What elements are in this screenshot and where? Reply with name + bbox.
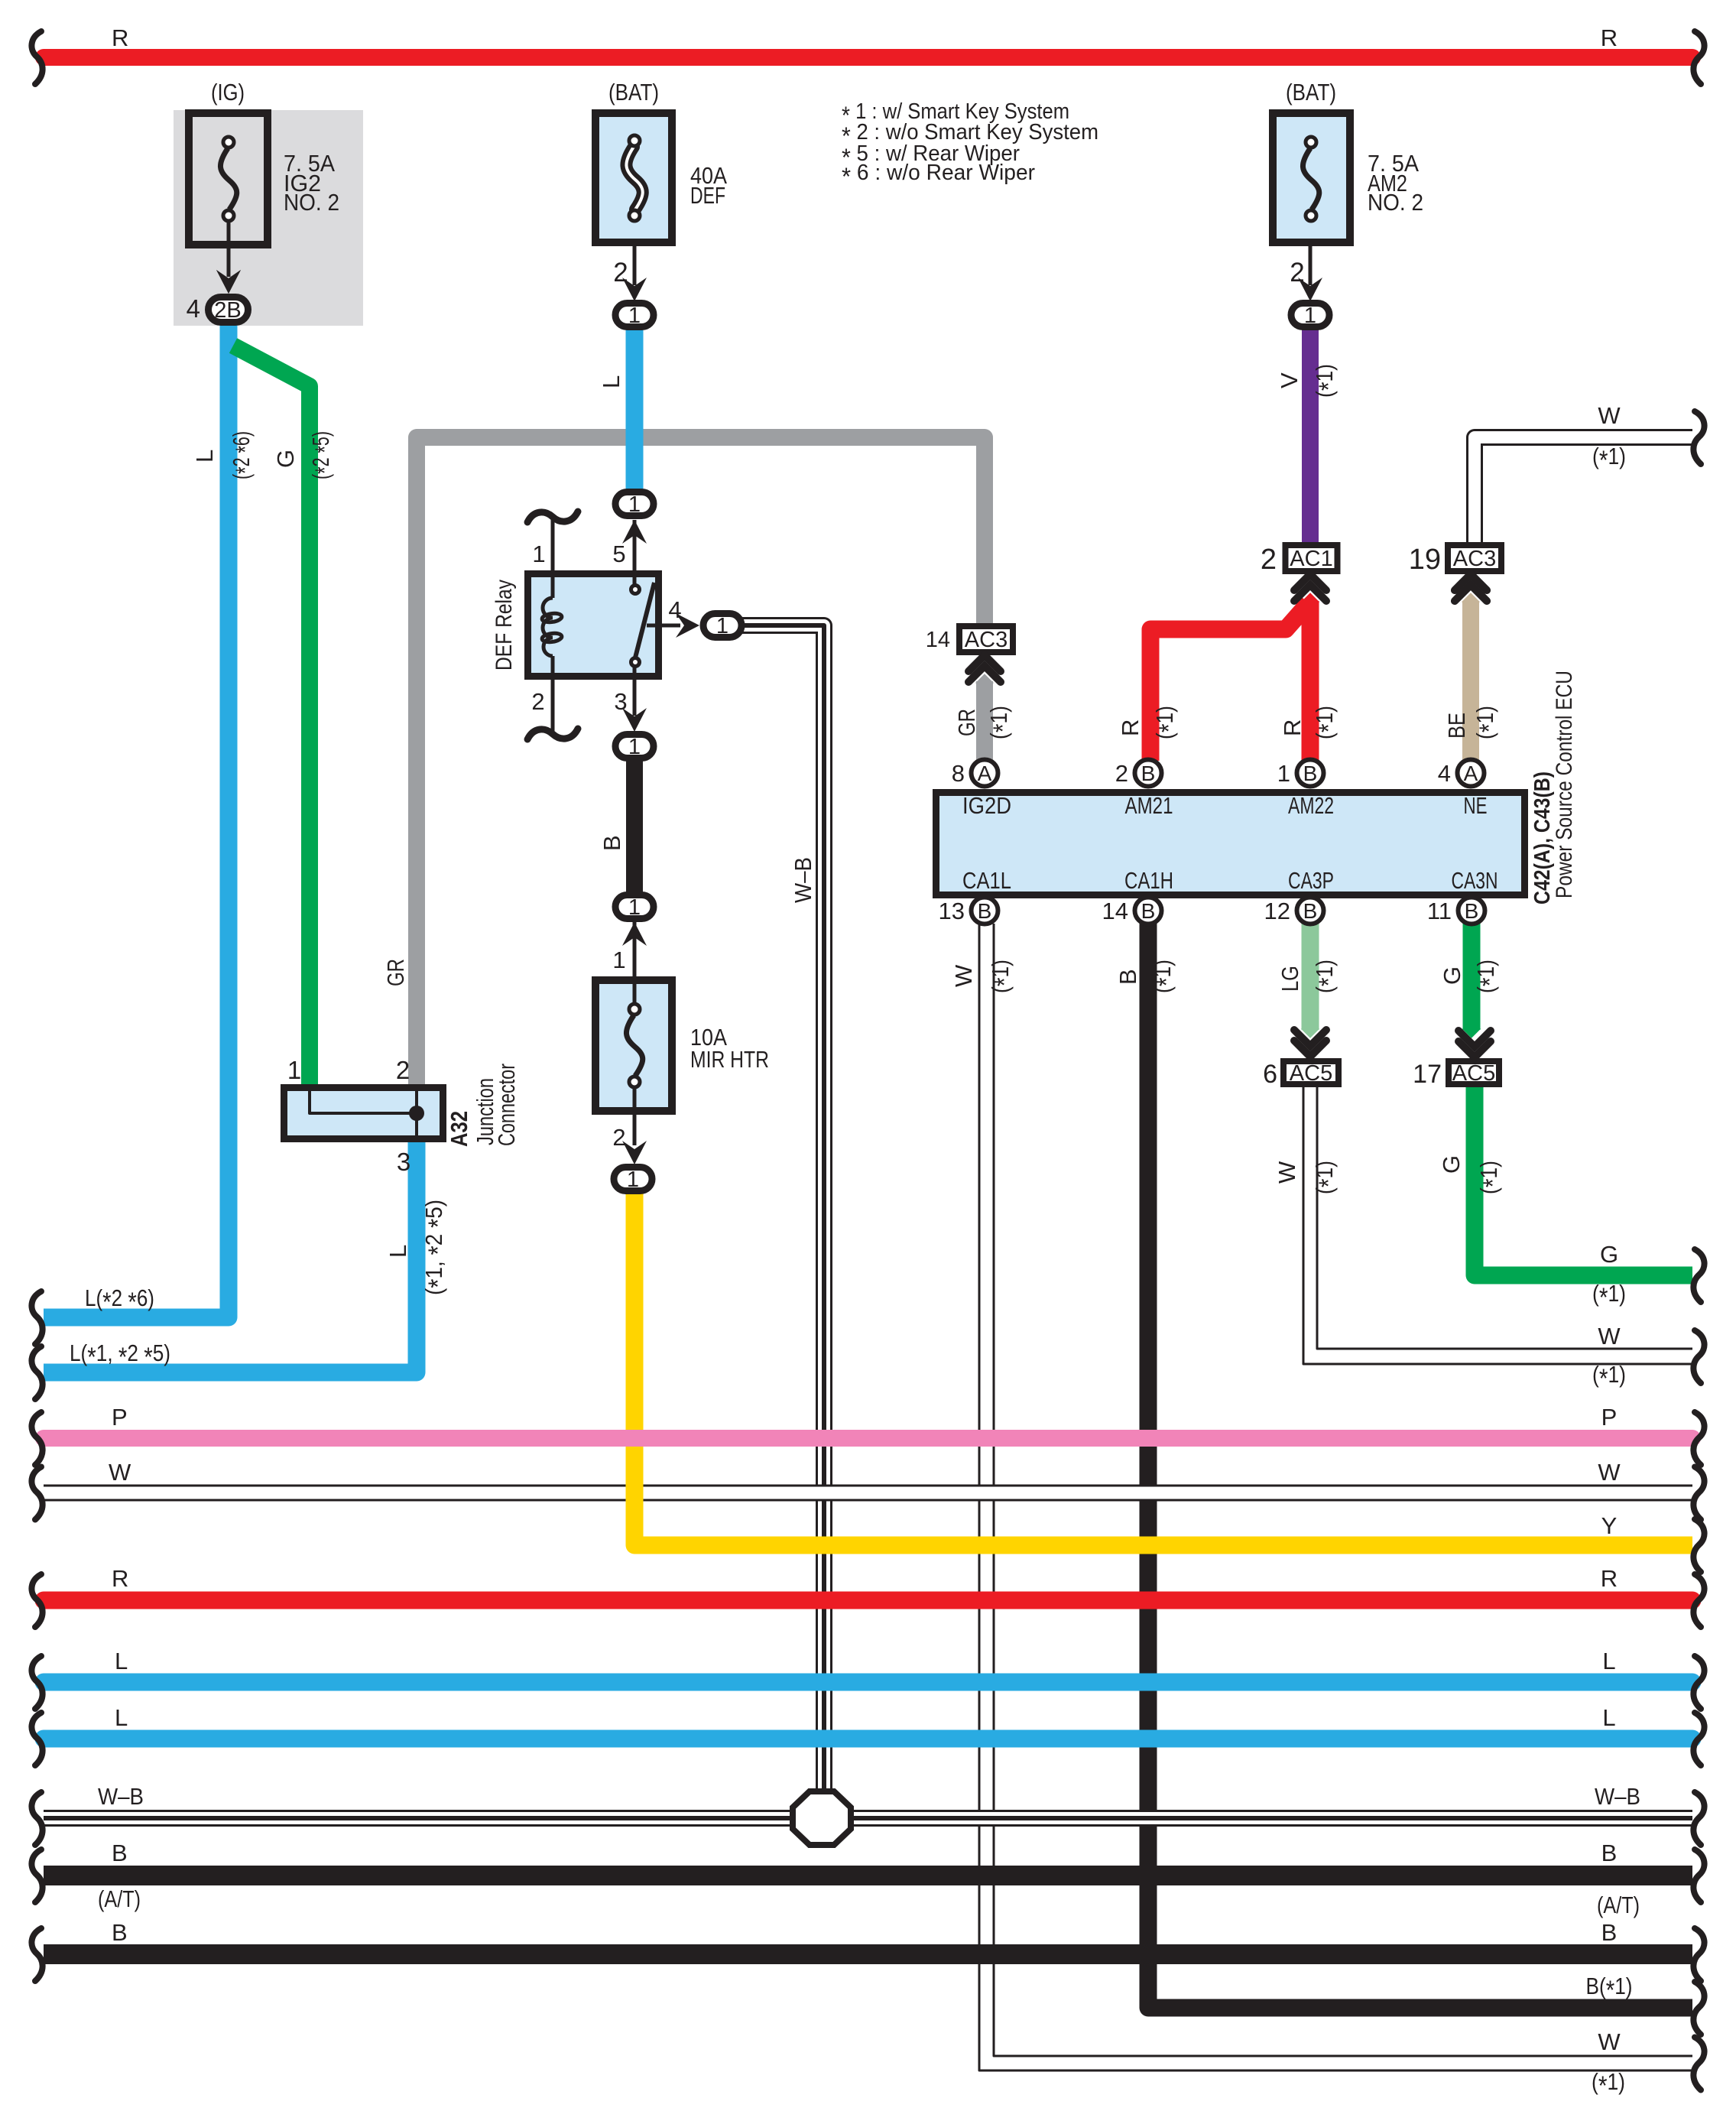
svg-text:2: 2 xyxy=(396,1056,410,1084)
svg-text:4: 4 xyxy=(187,294,200,323)
svg-text:14: 14 xyxy=(926,628,950,652)
svg-text:R: R xyxy=(112,1565,128,1592)
svg-text:6: 6 xyxy=(1263,1060,1277,1089)
svg-text:1: 1 xyxy=(287,1056,301,1084)
svg-text:1: 1 xyxy=(716,614,728,638)
svg-text:NE: NE xyxy=(1464,792,1488,819)
svg-text:Power Source Control ECU: Power Source Control ECU xyxy=(1552,671,1577,898)
svg-text:2: 2 xyxy=(1290,258,1304,287)
svg-text:L: L xyxy=(115,1648,128,1674)
svg-text:AC3: AC3 xyxy=(1453,547,1496,571)
svg-text:IG2D: IG2D xyxy=(962,792,1011,819)
svg-text:LG: LG xyxy=(1277,966,1303,992)
svg-text:NO. 2: NO. 2 xyxy=(284,189,339,216)
svg-text:A32: A32 xyxy=(446,1111,472,1147)
svg-text:B: B xyxy=(1115,969,1141,985)
svg-text:19: 19 xyxy=(1409,544,1441,576)
svg-text:(A/T): (A/T) xyxy=(98,1885,141,1912)
svg-text:5: 5 xyxy=(612,541,625,567)
svg-text:2: 2 xyxy=(531,688,544,715)
svg-text:B: B xyxy=(1303,762,1318,785)
svg-text:L: L xyxy=(1602,1704,1615,1731)
svg-text:P: P xyxy=(112,1404,128,1431)
svg-text:B: B xyxy=(1141,899,1156,923)
svg-text:GR: GR xyxy=(953,709,980,736)
svg-text:1: 1 xyxy=(628,735,641,759)
svg-text:11: 11 xyxy=(1427,898,1452,924)
svg-text:AC3: AC3 xyxy=(965,628,1008,652)
svg-text:B: B xyxy=(1601,1919,1618,1946)
svg-text:W: W xyxy=(109,1459,131,1486)
svg-text:B: B xyxy=(1601,1840,1618,1866)
svg-text:Connector: Connector xyxy=(493,1064,520,1146)
svg-text:1: 1 xyxy=(1277,760,1290,787)
svg-text:G: G xyxy=(1438,1155,1465,1174)
svg-text:B: B xyxy=(1141,762,1156,785)
svg-text:(BAT): (BAT) xyxy=(1286,79,1336,106)
svg-text:2: 2 xyxy=(612,1124,625,1151)
svg-text:AC1: AC1 xyxy=(1290,547,1332,571)
svg-text:W: W xyxy=(1598,1323,1621,1349)
svg-text:W: W xyxy=(1598,2028,1621,2055)
svg-text:1: 1 xyxy=(627,1168,639,1192)
svg-text:B: B xyxy=(599,835,625,851)
svg-text:CA1L: CA1L xyxy=(962,867,1011,894)
svg-text:1: 1 xyxy=(628,895,641,920)
svg-text:MIR HTR: MIR HTR xyxy=(690,1046,769,1073)
svg-text:B: B xyxy=(112,1840,128,1866)
svg-text:R: R xyxy=(1601,24,1618,51)
svg-text:(A/T): (A/T) xyxy=(1597,1892,1640,1918)
svg-text:4: 4 xyxy=(1438,760,1451,787)
svg-text:NO. 2: NO. 2 xyxy=(1368,189,1423,216)
svg-text:BE: BE xyxy=(1443,713,1470,739)
svg-text:GR: GR xyxy=(382,959,409,986)
svg-text:G: G xyxy=(1439,966,1465,985)
svg-text:A: A xyxy=(1464,762,1478,785)
svg-text:W: W xyxy=(1598,1459,1621,1486)
svg-text:L: L xyxy=(598,375,625,388)
svg-text:1: 1 xyxy=(628,304,641,328)
svg-text:2B: 2B xyxy=(214,298,241,323)
svg-text:R: R xyxy=(1117,719,1144,736)
svg-text:12: 12 xyxy=(1264,898,1290,924)
svg-text:2: 2 xyxy=(613,258,628,287)
svg-text:3: 3 xyxy=(397,1148,410,1176)
svg-text:L: L xyxy=(115,1704,128,1731)
svg-text:R: R xyxy=(1601,1565,1618,1592)
svg-text:(IG): (IG) xyxy=(211,79,245,106)
svg-text:W–B: W–B xyxy=(1595,1783,1640,1810)
svg-text:W: W xyxy=(950,964,977,987)
svg-text:R: R xyxy=(112,24,128,51)
svg-text:R: R xyxy=(1279,719,1306,736)
svg-text:DEF Relay: DEF Relay xyxy=(492,580,517,671)
svg-text:B: B xyxy=(1303,899,1318,923)
svg-text:1: 1 xyxy=(532,541,545,567)
svg-text:1: 1 xyxy=(612,947,625,973)
svg-text:B: B xyxy=(978,899,992,923)
svg-text:L: L xyxy=(1602,1648,1615,1674)
svg-text:1: 1 xyxy=(1304,304,1316,328)
svg-text:Y: Y xyxy=(1601,1512,1618,1539)
svg-text:W–B: W–B xyxy=(790,857,816,903)
svg-text:3: 3 xyxy=(614,688,627,715)
svg-text:G: G xyxy=(1600,1241,1618,1268)
svg-text:W: W xyxy=(1274,1161,1300,1184)
svg-text:V: V xyxy=(1276,372,1303,388)
svg-text:17: 17 xyxy=(1413,1060,1442,1089)
svg-text:AC5: AC5 xyxy=(1290,1061,1332,1086)
svg-text:DEF: DEF xyxy=(690,182,725,209)
svg-text:2: 2 xyxy=(1261,544,1277,576)
svg-text:4: 4 xyxy=(668,596,681,623)
svg-text:14: 14 xyxy=(1102,898,1128,924)
svg-text:L: L xyxy=(385,1245,411,1258)
svg-text:AM22: AM22 xyxy=(1288,792,1334,819)
svg-text:W: W xyxy=(1598,402,1621,429)
svg-text:CA3N: CA3N xyxy=(1452,867,1498,894)
svg-text:P: P xyxy=(1601,1404,1618,1431)
svg-text:G: G xyxy=(272,450,299,468)
svg-text:AC5: AC5 xyxy=(1452,1061,1495,1086)
svg-text:B: B xyxy=(1465,899,1479,923)
svg-text:CA3P: CA3P xyxy=(1288,867,1334,894)
svg-text:13: 13 xyxy=(939,898,965,924)
svg-text:W–B: W–B xyxy=(98,1783,144,1810)
svg-text:2: 2 xyxy=(1115,760,1128,787)
svg-text:A: A xyxy=(978,762,992,785)
svg-text:L: L xyxy=(191,450,218,463)
svg-text:8: 8 xyxy=(952,760,965,787)
svg-text:AM21: AM21 xyxy=(1125,792,1173,819)
svg-text:B: B xyxy=(112,1919,128,1946)
svg-text:1: 1 xyxy=(628,492,641,517)
svg-text:CA1H: CA1H xyxy=(1124,867,1173,894)
svg-text:(BAT): (BAT) xyxy=(608,79,659,106)
